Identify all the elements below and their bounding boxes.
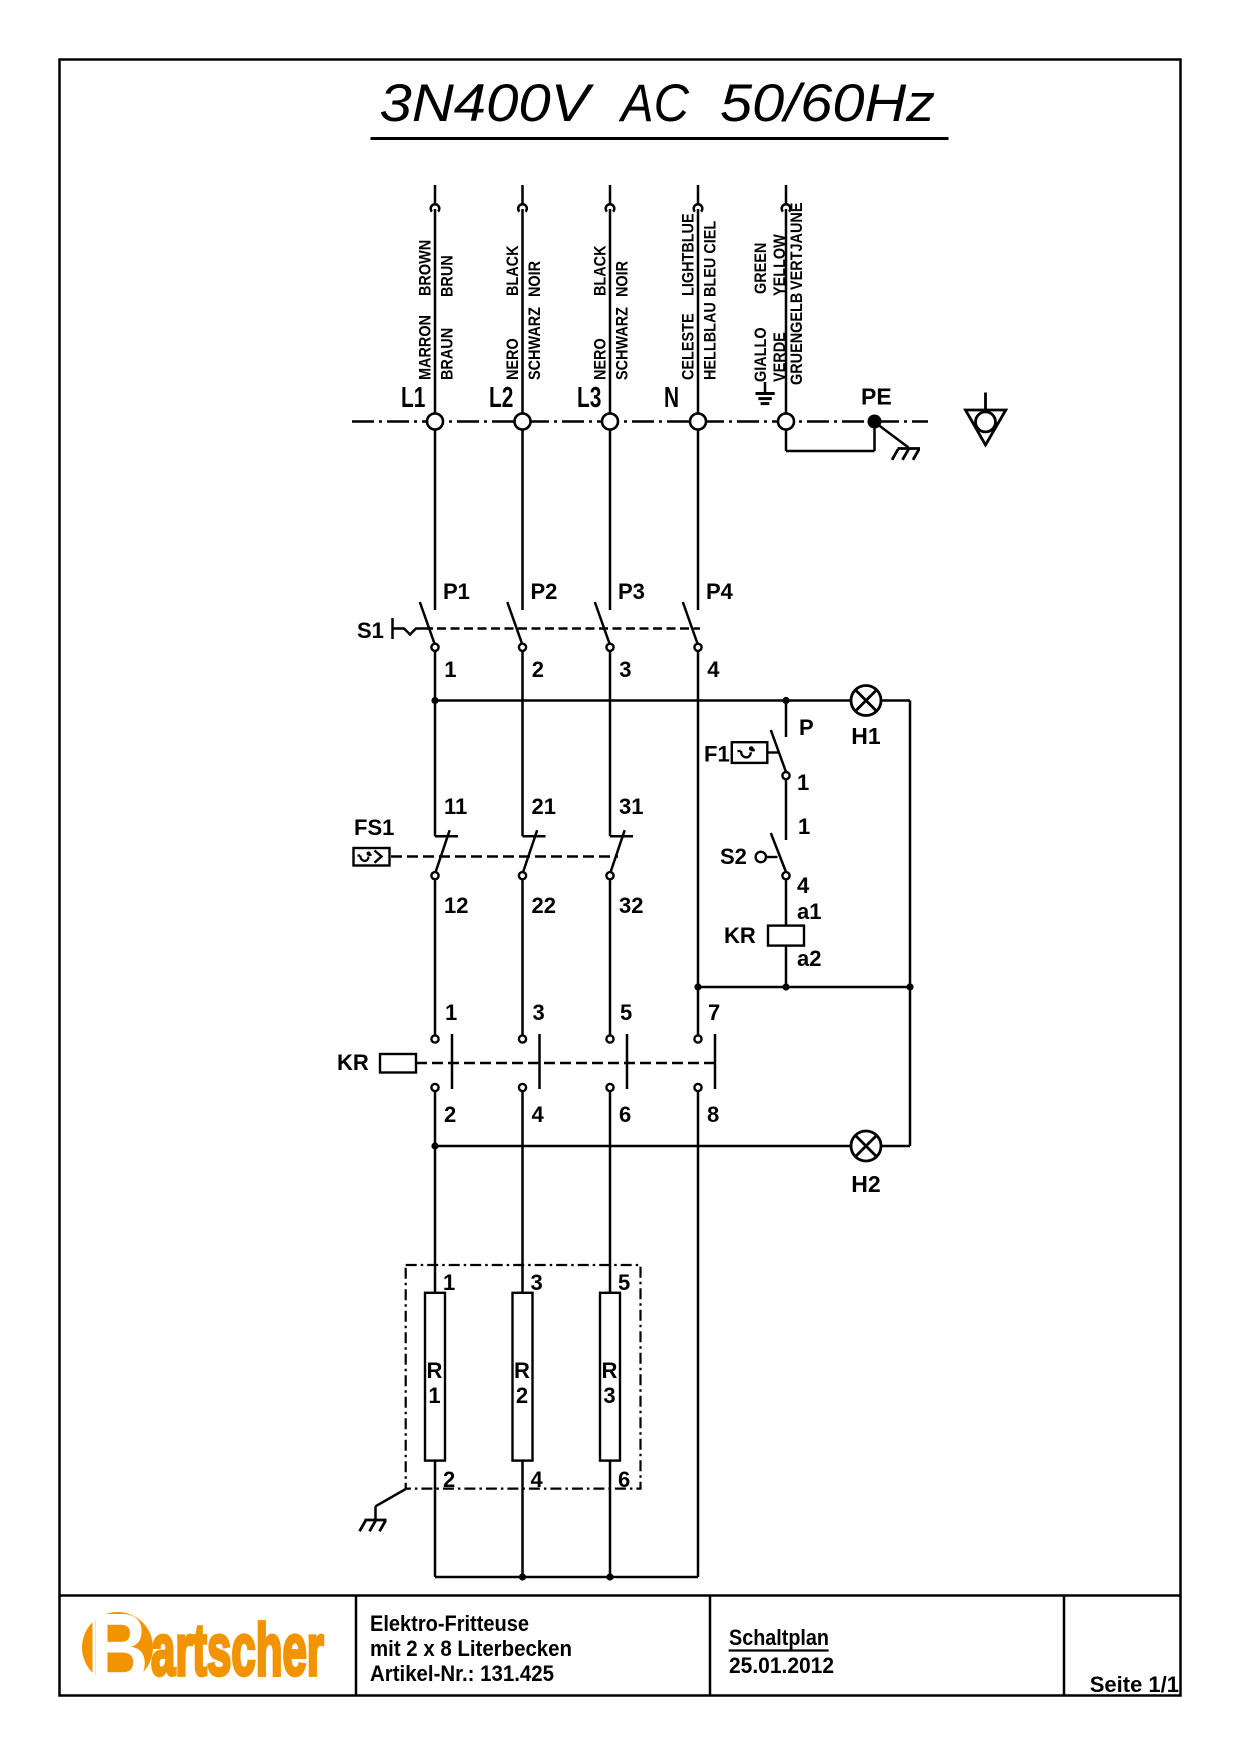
svg-text:3: 3 bbox=[533, 1000, 545, 1025]
svg-text:MARRON: MARRON bbox=[416, 315, 434, 380]
svg-text:21: 21 bbox=[532, 794, 556, 819]
svg-text:3N400V: 3N400V bbox=[380, 74, 595, 133]
svg-text:BRAUN: BRAUN bbox=[438, 328, 456, 380]
svg-text:BROWN: BROWN bbox=[416, 240, 434, 296]
svg-text:R: R bbox=[602, 1358, 618, 1383]
svg-text:1: 1 bbox=[797, 770, 809, 795]
svg-text:Elektro-Fritteuse: Elektro-Fritteuse bbox=[370, 1611, 529, 1636]
svg-text:7: 7 bbox=[708, 1000, 720, 1025]
svg-text:2: 2 bbox=[443, 1467, 455, 1492]
svg-text:11: 11 bbox=[444, 794, 467, 819]
svg-text:NOIR: NOIR bbox=[613, 260, 631, 297]
svg-text:Artikel-Nr.: 131.425: Artikel-Nr.: 131.425 bbox=[370, 1661, 554, 1686]
svg-text:2: 2 bbox=[444, 1102, 456, 1127]
svg-text:L1: L1 bbox=[401, 382, 425, 414]
svg-text:P: P bbox=[799, 715, 814, 740]
svg-text:8: 8 bbox=[707, 1102, 719, 1127]
svg-text:50/60Hz: 50/60Hz bbox=[720, 74, 935, 133]
svg-text:32: 32 bbox=[619, 893, 643, 918]
svg-text:1: 1 bbox=[443, 1270, 455, 1295]
svg-text:YELLOW: YELLOW bbox=[771, 234, 789, 296]
svg-text:CELESTE: CELESTE bbox=[679, 313, 697, 380]
svg-text:1: 1 bbox=[445, 1000, 457, 1025]
svg-text:3: 3 bbox=[603, 1383, 615, 1408]
svg-text:BRUN: BRUN bbox=[438, 255, 456, 297]
svg-text:2: 2 bbox=[532, 657, 544, 682]
svg-text:5: 5 bbox=[620, 1000, 632, 1025]
svg-text:4: 4 bbox=[797, 873, 810, 898]
svg-text:FS1: FS1 bbox=[354, 815, 394, 840]
svg-text:P3: P3 bbox=[618, 579, 645, 604]
svg-text:LIGHTBLUE: LIGHTBLUE bbox=[679, 213, 697, 296]
svg-text:1: 1 bbox=[798, 814, 810, 839]
svg-text:H2: H2 bbox=[851, 1171, 880, 1197]
svg-text:KR: KR bbox=[337, 1050, 369, 1075]
svg-text:1: 1 bbox=[428, 1383, 440, 1408]
svg-text:HELLBLAU: HELLBLAU bbox=[701, 302, 719, 380]
svg-text:BLACK: BLACK bbox=[591, 245, 609, 296]
svg-text:R: R bbox=[427, 1358, 443, 1383]
svg-text:VERTJAUNE: VERTJAUNE bbox=[788, 203, 806, 290]
svg-text:22: 22 bbox=[532, 893, 556, 918]
svg-text:L2: L2 bbox=[489, 382, 513, 414]
svg-text:BLACK: BLACK bbox=[504, 245, 522, 296]
svg-text:AC: AC bbox=[618, 74, 689, 133]
svg-text:L3: L3 bbox=[577, 382, 601, 414]
svg-text:P4: P4 bbox=[706, 579, 734, 604]
svg-text:GREEN: GREEN bbox=[752, 243, 770, 294]
svg-text:S2: S2 bbox=[720, 844, 747, 869]
svg-text:6: 6 bbox=[618, 1467, 630, 1492]
svg-text:25.01.2012: 25.01.2012 bbox=[729, 1653, 834, 1678]
svg-text:a1: a1 bbox=[797, 899, 821, 924]
svg-text:4: 4 bbox=[531, 1467, 544, 1492]
svg-text:GRUENGELB: GRUENGELB bbox=[788, 293, 806, 385]
svg-text:Schaltplan: Schaltplan bbox=[729, 1625, 829, 1650]
svg-text:NERO: NERO bbox=[591, 338, 609, 380]
svg-text:a2: a2 bbox=[797, 946, 821, 971]
svg-text:S1: S1 bbox=[357, 618, 384, 643]
svg-text:KR: KR bbox=[724, 923, 756, 948]
svg-text:GIALLO: GIALLO bbox=[752, 327, 770, 382]
svg-text:mit 2 x 8 Literbecken: mit 2 x 8 Literbecken bbox=[370, 1636, 572, 1661]
svg-text:PE: PE bbox=[861, 384, 892, 410]
svg-text:31: 31 bbox=[619, 794, 643, 819]
svg-text:BLEU CIEL: BLEU CIEL bbox=[701, 220, 719, 297]
svg-text:1: 1 bbox=[444, 657, 456, 682]
svg-text:P1: P1 bbox=[443, 579, 470, 604]
svg-text:N: N bbox=[664, 382, 679, 414]
svg-text:3: 3 bbox=[531, 1270, 543, 1295]
svg-text:5: 5 bbox=[618, 1270, 630, 1295]
svg-text:P2: P2 bbox=[531, 579, 558, 604]
svg-text:NERO: NERO bbox=[504, 338, 522, 380]
svg-text:4: 4 bbox=[707, 657, 720, 682]
svg-text:Seite 1/1: Seite 1/1 bbox=[1090, 1672, 1179, 1697]
svg-text:4: 4 bbox=[532, 1102, 545, 1127]
svg-text:NOIR: NOIR bbox=[526, 260, 544, 297]
svg-text:F1: F1 bbox=[704, 742, 730, 767]
svg-text:3: 3 bbox=[619, 657, 631, 682]
svg-text:R: R bbox=[514, 1358, 530, 1383]
svg-text:VERDE: VERDE bbox=[771, 332, 789, 382]
svg-text:12: 12 bbox=[444, 893, 468, 918]
svg-text:H1: H1 bbox=[851, 723, 881, 749]
svg-text:SCHWARZ: SCHWARZ bbox=[613, 307, 631, 380]
svg-text:SCHWARZ: SCHWARZ bbox=[526, 307, 544, 380]
svg-text:B: B bbox=[91, 1594, 149, 1706]
svg-text:2: 2 bbox=[516, 1383, 528, 1408]
svg-text:6: 6 bbox=[619, 1102, 631, 1127]
svg-text:artscher: artscher bbox=[151, 1610, 324, 1691]
